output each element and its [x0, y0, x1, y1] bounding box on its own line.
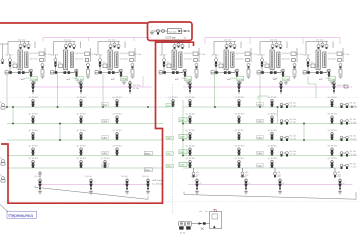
svg-text:Q7 КТ361: Q7 КТ361	[113, 130, 123, 132]
svg-text:C7 2н2: C7 2н2	[350, 138, 358, 140]
svg-text:Q9 1о5: Q9 1о5	[240, 176, 248, 178]
svg-text:Q7 КТ361: Q7 КТ361	[186, 130, 196, 132]
svg-text:Q7 КТ361: Q7 КТ361	[268, 130, 278, 132]
svg-text:0 1о5: 0 1о5	[73, 78, 79, 80]
svg-text:0 1о5: 0 1о5	[273, 78, 279, 80]
svg-text:Q7 КТ361: Q7 КТ361	[328, 113, 338, 115]
svg-text:ФМ2о: ФМ2о	[145, 169, 151, 172]
svg-text:0 1о5: 0 1о5	[326, 78, 332, 80]
svg-text:Q7 КТ361: Q7 КТ361	[268, 113, 278, 115]
svg-text:Q7 КТ361: Q7 КТ361	[113, 97, 123, 99]
svg-text:C7 2н2: C7 2н2	[350, 105, 358, 107]
svg-text:Q9 1о5: Q9 1о5	[334, 176, 342, 178]
svg-text:Q7 КТ361: Q7 КТ361	[328, 130, 338, 132]
svg-text:1502: 1502	[167, 154, 173, 156]
svg-text:Q7 КТ361: Q7 КТ361	[235, 158, 245, 160]
svg-text:C7 2н2: C7 2н2	[290, 105, 298, 107]
svg-text:об. 2х5 тф: об. 2х5 тф	[152, 183, 162, 186]
svg-text:2х Тф: 2х Тф	[133, 87, 139, 90]
svg-text:C7 2н2: C7 2н2	[290, 154, 298, 156]
svg-text:C7 2н2: C7 2н2	[290, 122, 298, 124]
svg-text:R4 10к: R4 10к	[290, 119, 297, 121]
svg-text:0 1о5: 0 1о5	[25, 78, 31, 80]
svg-text:Q7 КТ361: Q7 КТ361	[328, 145, 338, 147]
svg-text:тХХ-2 юнит: тХХ-2 юнит	[152, 180, 164, 182]
svg-text:Q9 1о5: Q9 1о5	[34, 176, 42, 178]
svg-text:11В2: 11В2	[180, 165, 186, 167]
svg-text:Q9 1о5: Q9 1о5	[274, 176, 282, 178]
svg-text:0 1о5: 0 1о5	[231, 78, 237, 80]
svg-text:Q7 КТ361: Q7 КТ361	[235, 97, 245, 99]
svg-text:Q7 КТ361: Q7 КТ361	[186, 113, 196, 115]
svg-text:C7 2н2: C7 2н2	[350, 166, 358, 168]
svg-text:Q7 КТ361: Q7 КТ361	[113, 145, 123, 147]
svg-text:V=1.2а5: V=1.2а5	[169, 31, 178, 33]
svg-text:11В2: 11В2	[180, 152, 186, 154]
svg-text:Q7 КТ361: Q7 КТ361	[186, 158, 196, 160]
svg-text:0 1о5: 0 1о5	[122, 78, 128, 80]
svg-text:Q7 КТ361: Q7 КТ361	[77, 145, 87, 147]
svg-text:C7 2н2: C7 2н2	[350, 122, 358, 124]
svg-text:Q7 КТ361: Q7 КТ361	[186, 145, 196, 147]
svg-text:Q7 КТ361: Q7 КТ361	[77, 97, 87, 99]
svg-text:R4 10к: R4 10к	[290, 103, 297, 105]
svg-text:об: об	[0, 102, 2, 104]
svg-text:R4 10к: R4 10к	[350, 103, 357, 105]
svg-text:C7 2н2: C7 2н2	[290, 138, 298, 140]
svg-text:Q7 КТ361: Q7 КТ361	[29, 145, 39, 147]
svg-text:11В2: 11В2	[180, 137, 186, 139]
svg-text:R4 10к: R4 10к	[290, 136, 297, 138]
svg-text:C7 2н2: C7 2н2	[350, 154, 358, 156]
svg-text:Q7 КТ361: Q7 КТ361	[29, 130, 39, 132]
svg-text:Q7 КТ361: Q7 КТ361	[328, 158, 338, 160]
svg-text:1602: 1602	[167, 166, 173, 168]
svg-text:Перемычка: Перемычка	[8, 213, 33, 218]
svg-text:R4 10к: R4 10к	[350, 151, 357, 153]
svg-text:об: об	[0, 158, 2, 160]
svg-text:КлТ 1об: КлТ 1об	[133, 85, 142, 87]
svg-text:Q7 КТ361: Q7 КТ361	[186, 97, 196, 99]
svg-text:Q9 1о5: Q9 1о5	[142, 176, 150, 178]
svg-text:1402: 1402	[167, 138, 173, 140]
svg-text:Q7 КТ361: Q7 КТ361	[77, 130, 87, 132]
svg-text:Q7 КТ361: Q7 КТ361	[268, 158, 278, 160]
svg-text:0 1о5: 0 1о5	[182, 78, 188, 80]
svg-text:R4 10к: R4 10к	[350, 136, 357, 138]
svg-text:R4 10к: R4 10к	[290, 151, 297, 153]
svg-text:Q9 1о5: Q9 1о5	[85, 176, 93, 178]
svg-text:Q7 КТ361: Q7 КТ361	[29, 113, 39, 115]
svg-text:Q7 КТ361: Q7 КТ361	[268, 145, 278, 147]
svg-text:Q7 КТ361: Q7 КТ361	[328, 97, 338, 99]
svg-text:Q9 1о5: Q9 1о5	[121, 176, 129, 178]
svg-text:Q7 КТ361: Q7 КТ361	[113, 113, 123, 115]
svg-text:Q7 КТ361: Q7 КТ361	[169, 97, 179, 99]
svg-text:т: т	[151, 27, 152, 29]
svg-text:Q7 КТ361: Q7 КТ361	[77, 113, 87, 115]
svg-text:Q7 КТ361: Q7 КТ361	[235, 113, 245, 115]
svg-text:Q7 КТ361: Q7 КТ361	[29, 158, 39, 160]
svg-text:2к: 2к	[184, 38, 186, 40]
svg-text:Q7 КТ361: Q7 КТ361	[268, 97, 278, 99]
svg-text:Q9 1о5: Q9 1о5	[191, 176, 199, 178]
svg-text:об: об	[0, 175, 2, 177]
svg-text:Q7 КТ361: Q7 КТ361	[101, 158, 111, 160]
svg-text:ФМ2о: ФМ2о	[145, 152, 151, 155]
svg-text:R4 10к: R4 10к	[350, 164, 357, 166]
svg-text:11В2: 11В2	[180, 120, 186, 122]
svg-text:Q7 КТ361: Q7 КТ361	[235, 145, 245, 147]
svg-text:Q7 КТ361: Q7 КТ361	[29, 97, 39, 99]
svg-text:1102: 1102	[167, 105, 172, 107]
svg-text:х1кТ 2об: х1кТ 2об	[337, 85, 346, 87]
svg-text:Q7 КТ361: Q7 КТ361	[235, 130, 245, 132]
svg-text:2x Тр: 2x Тр	[180, 233, 186, 235]
svg-text:Q7 КТ361: Q7 КТ361	[77, 158, 87, 160]
svg-text:R4 10к: R4 10к	[350, 119, 357, 121]
